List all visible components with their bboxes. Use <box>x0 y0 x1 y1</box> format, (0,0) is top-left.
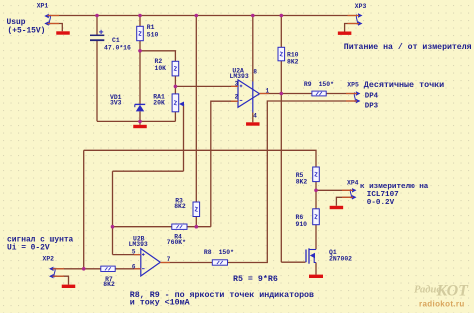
svg-text:XP2: XP2 <box>43 256 55 263</box>
svg-text:XP3: XP3 <box>355 3 367 10</box>
svg-text:3: 3 <box>235 80 239 87</box>
svg-text:8K2: 8K2 <box>174 203 186 210</box>
svg-text:2N7002: 2N7002 <box>329 256 352 263</box>
svg-text:R9: R9 <box>304 81 312 88</box>
svg-text:DP3: DP3 <box>365 102 379 110</box>
svg-text:1: 1 <box>266 87 270 94</box>
svg-text:XP4: XP4 <box>347 180 359 187</box>
svg-text:20K: 20K <box>153 99 165 106</box>
svg-text:2: 2 <box>235 93 239 100</box>
svg-text:Питание на / от измерителя: Питание на / от измерителя <box>344 42 472 52</box>
svg-text:510: 510 <box>147 32 159 39</box>
svg-text:Десятичные точки: Десятичные точки <box>364 80 444 90</box>
svg-text:DP4: DP4 <box>365 93 379 101</box>
svg-text:R5 = 9*R6: R5 = 9*R6 <box>233 274 278 284</box>
svg-text:(+5-15V): (+5-15V) <box>8 26 46 35</box>
svg-text:8: 8 <box>253 69 257 76</box>
svg-text:КОТ: КОТ <box>436 283 470 300</box>
svg-text:910: 910 <box>296 221 308 228</box>
svg-text:radiokot.ru: radiokot.ru <box>419 300 465 309</box>
svg-text:760K*: 760K* <box>167 239 186 246</box>
svg-text:7: 7 <box>167 256 171 263</box>
svg-text:150*: 150* <box>319 81 335 88</box>
svg-text:Ui = 0-2V: Ui = 0-2V <box>7 243 50 252</box>
svg-text:R6: R6 <box>296 214 304 221</box>
svg-text:5: 5 <box>132 249 136 256</box>
svg-text:8K2: 8K2 <box>296 178 308 185</box>
svg-text:R1: R1 <box>147 24 155 31</box>
svg-text:0-0.2V: 0-0.2V <box>367 199 395 207</box>
svg-text:LM393: LM393 <box>230 73 249 80</box>
svg-text:10K: 10K <box>155 65 167 72</box>
svg-text:4: 4 <box>253 113 257 120</box>
svg-text:R2: R2 <box>155 58 163 65</box>
svg-text:и току <10мА: и току <10мА <box>130 298 190 307</box>
svg-text:3V3: 3V3 <box>110 99 122 106</box>
svg-text:XP1: XP1 <box>37 2 49 9</box>
svg-text:47.0*16: 47.0*16 <box>104 45 131 52</box>
svg-text:XP5: XP5 <box>347 82 359 89</box>
svg-text:C1: C1 <box>112 37 120 44</box>
svg-text:к измерителю на: к измерителю на <box>360 183 429 191</box>
svg-text:R8: R8 <box>204 249 212 256</box>
svg-text:ICL7107: ICL7107 <box>367 191 399 199</box>
svg-text:6: 6 <box>132 264 136 271</box>
svg-text:LM393: LM393 <box>129 241 148 248</box>
svg-text:8K2: 8K2 <box>103 281 115 288</box>
svg-text:150*: 150* <box>219 249 235 256</box>
svg-text:8K2: 8K2 <box>287 58 299 65</box>
